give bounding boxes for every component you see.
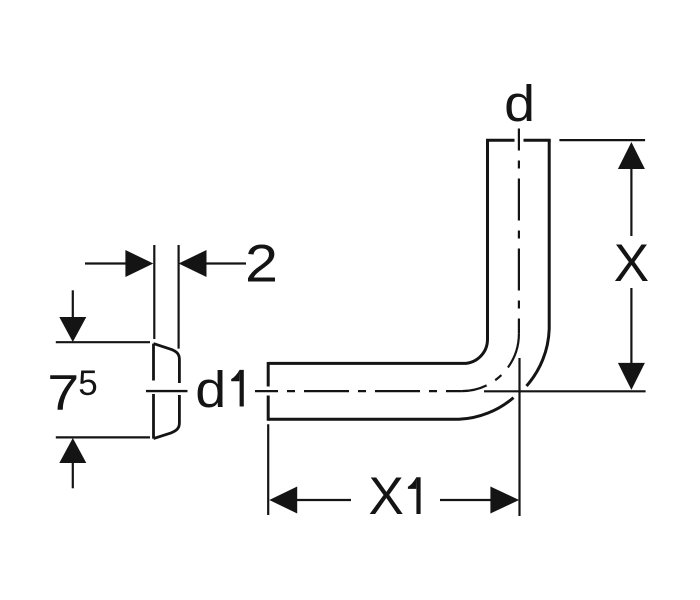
dimension line 2: right leader [206, 262, 246, 264]
svg-text:5: 5 [78, 364, 97, 403]
arrowhead: X bottom (points down) [618, 363, 645, 390]
arrowhead: 7.5-dim top (points down) [59, 317, 86, 342]
arrowhead: 7.5-dim bottom (points up) [59, 438, 86, 463]
bend axis centre line arc (dash-dot) [462, 334, 519, 391]
arrowhead: 2-dim left (points right) [125, 250, 153, 277]
dimension line 7.5: bottom leader [72, 462, 74, 488]
label d1 digit 1 (custom glyph, no foot) [231, 370, 244, 407]
dimension line X (vertical, broken for label) [630, 168, 632, 364]
gasket cross-section outline (left seal ring) [154, 344, 180, 439]
svg-text:X: X [614, 234, 649, 293]
pipe elbow outline: outer contour upper part (right edge of vertical pipe + outer bend arc until centerline gap) [527, 140, 550, 386]
dimension line X1 (horizontal, broken for label) [297, 499, 492, 501]
extension line: 7.5-dim bottom [56, 436, 150, 438]
pipe elbow outline: inner contour (left edge of vertical pipe, inner fillet, top edge of horizontal pipe) [268, 140, 487, 363]
label X1 digit 1 (custom glyph, no foot) [408, 477, 421, 514]
arrowhead: 2-dim right (points left) [179, 250, 207, 277]
arrowhead: X top (points up) [618, 142, 645, 169]
extension line: X1 right (vertical, through bend centre) [518, 358, 520, 516]
extension line: top of X dimension [559, 139, 645, 141]
arrowhead: X1 right (points right) [490, 487, 519, 514]
extension line: bottom of X dimension / horizontal axis extension [484, 390, 646, 392]
svg-text:7: 7 [47, 365, 79, 421]
extension line: 7.5-dim top [56, 341, 150, 343]
pipe elbow outline: outer bend arc lower part + bottom edge of horizontal pipe [268, 398, 513, 420]
dimension line 2: left leader [85, 262, 126, 264]
arrowhead: X1 left (points left) [269, 487, 297, 514]
horizontal centre line of pipe (dash-dot, from d1 to bend) [255, 390, 462, 392]
svg-text:X: X [369, 467, 404, 526]
svg-text:2: 2 [245, 234, 278, 293]
extension line: X1 left [267, 424, 269, 515]
dimension line 7.5: top leader [72, 290, 74, 318]
svg-text:d: d [504, 75, 535, 132]
pipe top edge (at d), broken at centerline [486, 139, 551, 142]
vertical centre line of pipe (dash-dot) [518, 129, 520, 334]
svg-text:d: d [195, 361, 226, 418]
gasket centre tick [146, 390, 188, 392]
extension line: 2-dim right [178, 245, 180, 349]
extension line: 2-dim left [153, 245, 155, 339]
pipe left end cap, broken at centerline [267, 362, 270, 421]
